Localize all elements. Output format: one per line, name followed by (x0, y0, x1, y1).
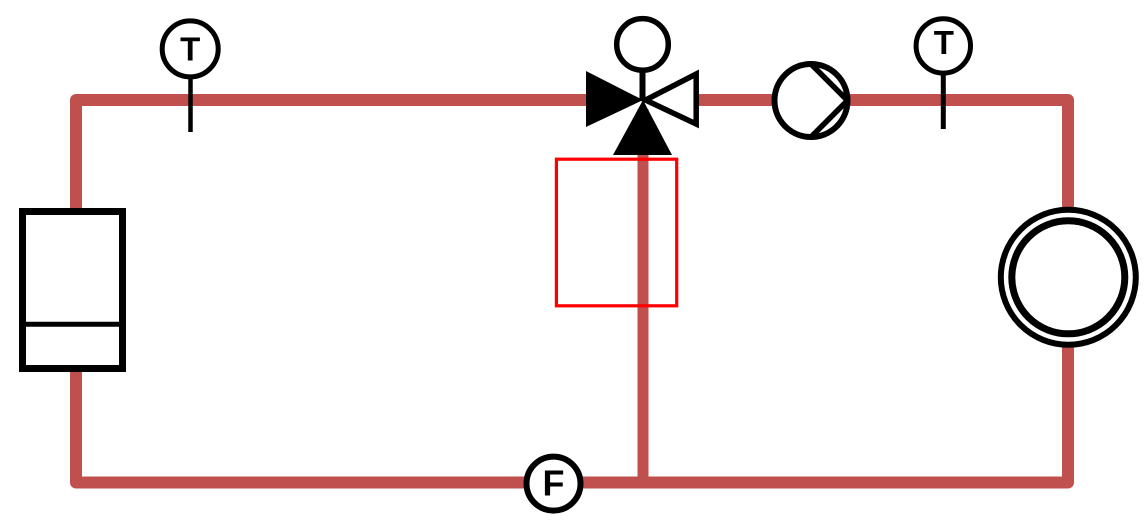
boiler B1 (23, 212, 123, 369)
highlight box (selection rectangle) (556, 159, 676, 306)
valve right port (outlined triangle) (646, 74, 697, 124)
svg-text:F: F (543, 463, 565, 504)
valve left port (filled triangle) (586, 71, 643, 127)
pump P1 (775, 64, 848, 137)
wire: bypass pipe from valve to return (638, 100, 649, 483)
flow sensor F1 (return) (527, 457, 581, 511)
valve actuator head (617, 19, 669, 71)
svg-text:T: T (934, 24, 954, 61)
valve bottom port (filled triangle) (613, 100, 672, 155)
wire: main piping loop (76, 100, 1068, 483)
three-way mixing valve V1 (586, 19, 696, 155)
temperature sensor T2 (after pump) (916, 19, 970, 129)
load / heat consumer (double circle) (1001, 210, 1136, 345)
temperature sensor T1 (supply) (162, 21, 218, 132)
valve body background (pipe cover) (600, 91, 690, 109)
valve actuator stem (640, 70, 646, 100)
svg-text:T: T (180, 31, 200, 68)
